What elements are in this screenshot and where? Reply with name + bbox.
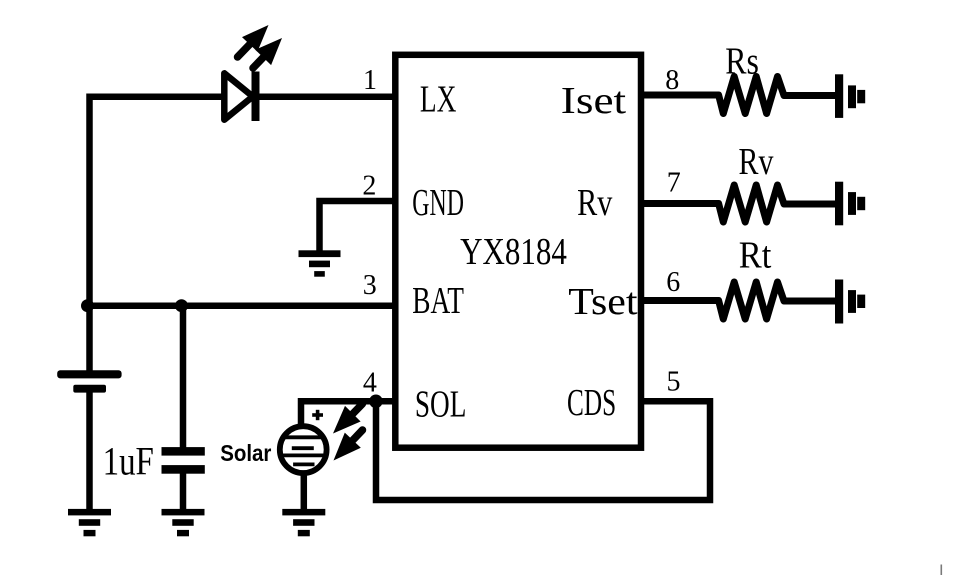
svg-text:LX: LX [420,79,457,121]
svg-text:Rv: Rv [577,182,612,224]
svg-text:3: 3 [363,270,377,301]
svg-text:SOL: SOL [415,384,467,426]
svg-text:BAT: BAT [412,280,464,322]
svg-text:Rt: Rt [739,234,772,276]
svg-text:7: 7 [667,168,681,199]
svg-text:Rs: Rs [725,41,759,83]
svg-text:Rv: Rv [739,141,774,183]
svg-text:8: 8 [665,65,679,96]
svg-text:CDS: CDS [567,382,616,424]
svg-text:4: 4 [363,368,377,399]
svg-text:6: 6 [666,267,680,298]
svg-text:Solar: Solar [220,440,271,466]
svg-text:Iset: Iset [561,80,627,122]
svg-text:1: 1 [363,65,377,96]
svg-text:1uF: 1uF [103,439,154,484]
svg-text:5: 5 [667,367,681,398]
svg-text:Tset: Tset [568,281,638,323]
svg-text:2: 2 [362,170,376,201]
svg-text:YX8184: YX8184 [460,231,567,273]
svg-text:GND: GND [412,182,464,224]
